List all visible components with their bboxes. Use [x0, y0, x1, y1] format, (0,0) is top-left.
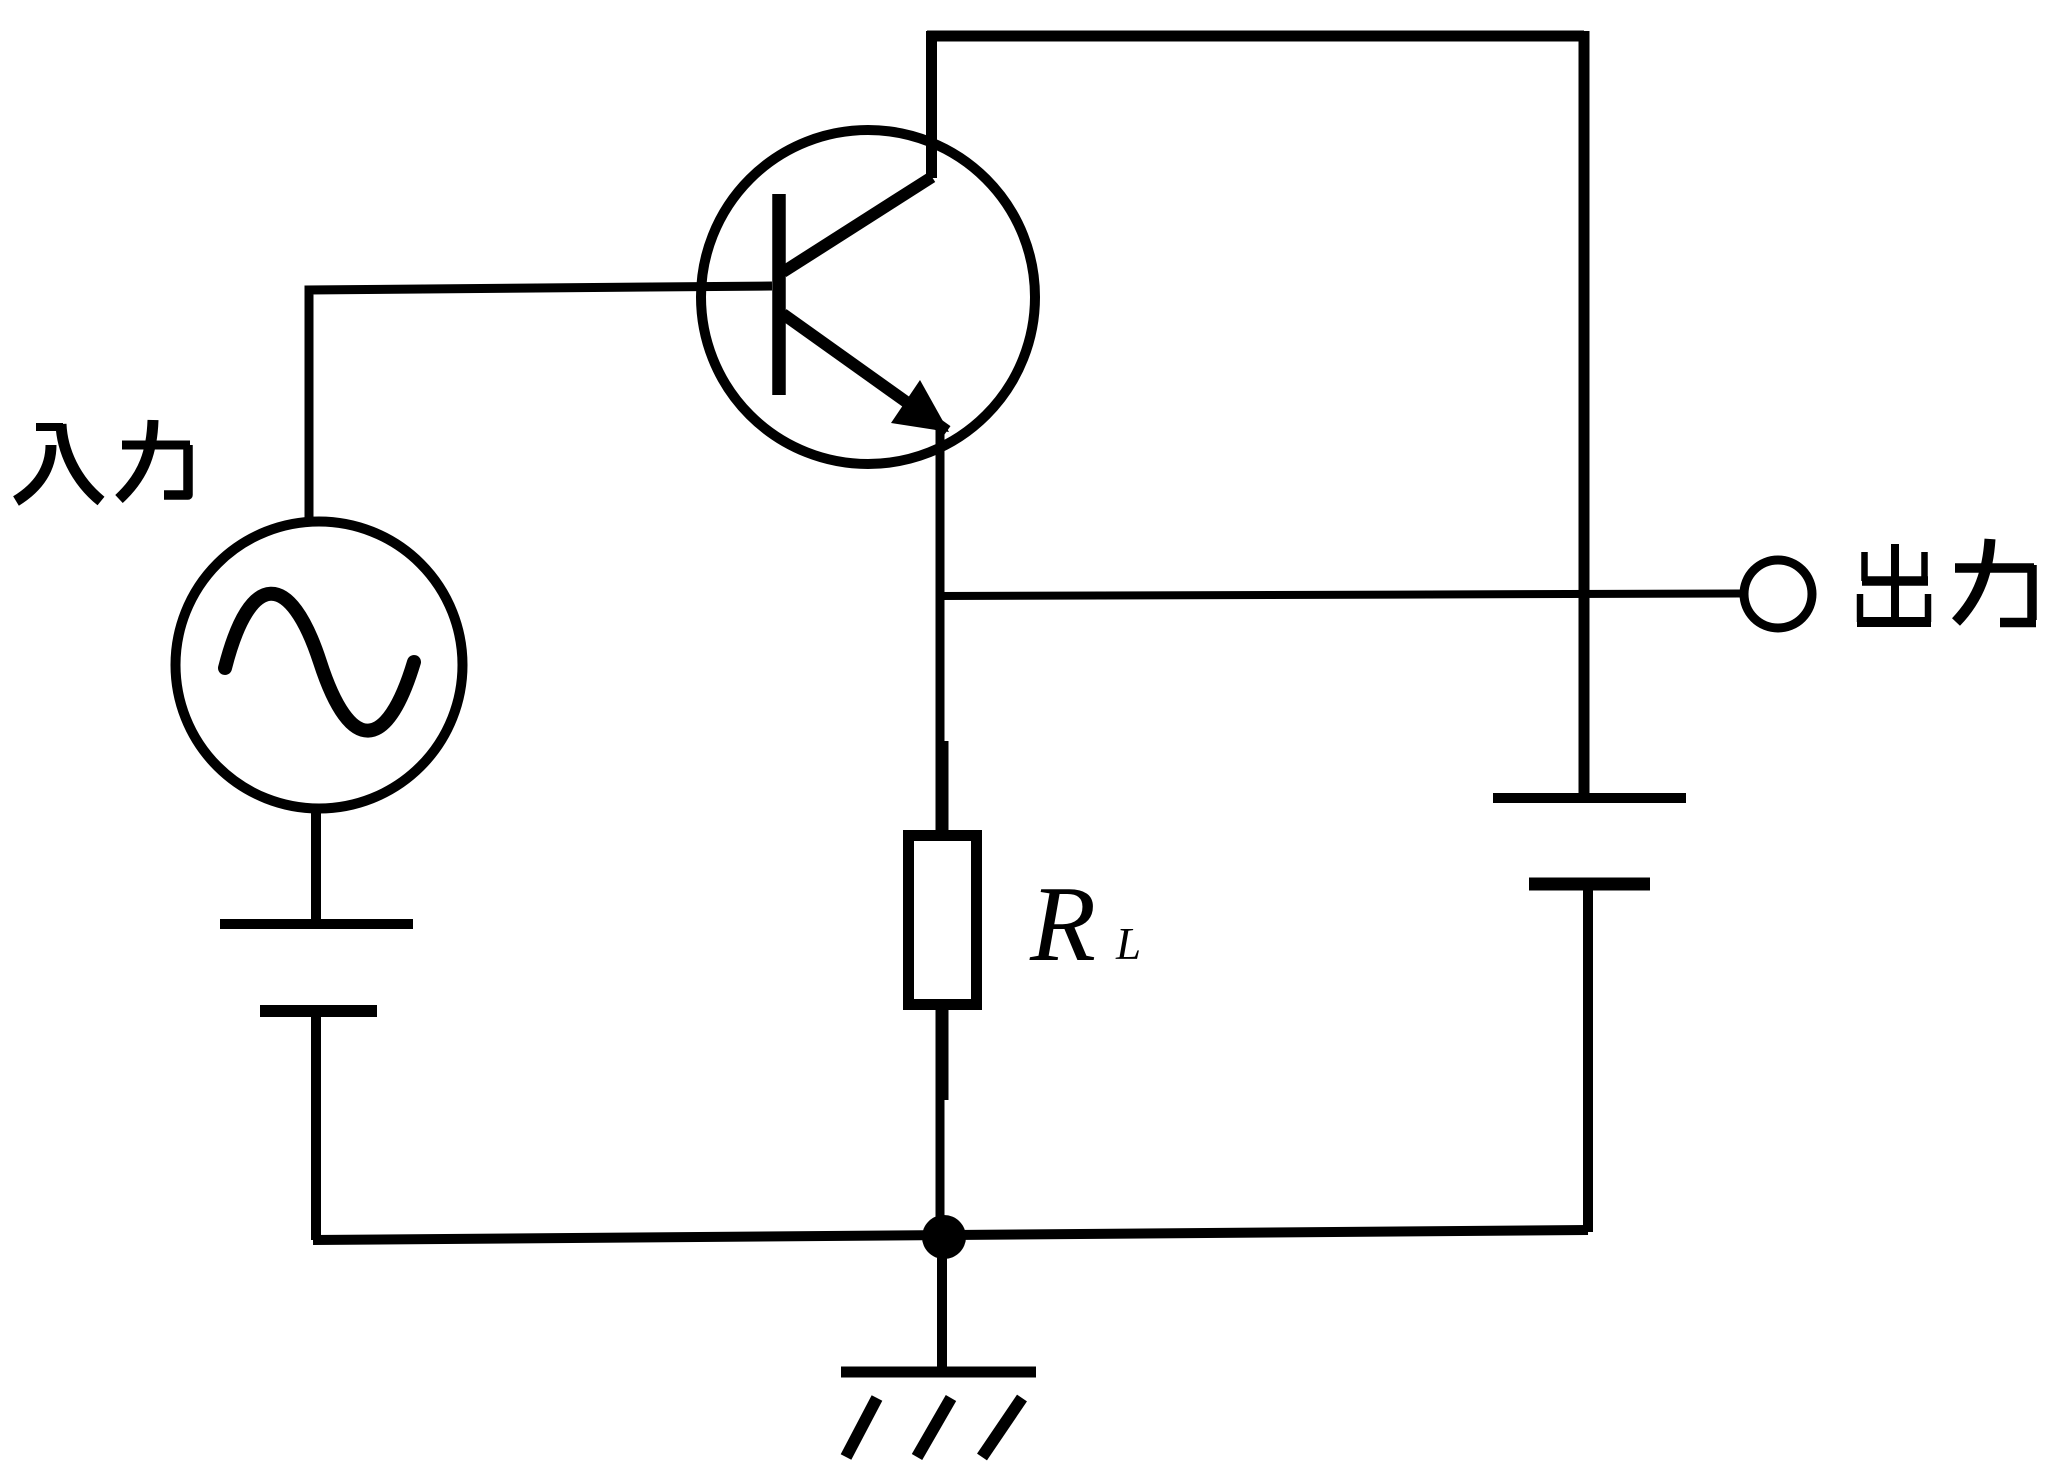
transistor Q1 (NPN, emitter follower) [701, 130, 1035, 464]
wire: battery E2 down to bottom rail [1583, 884, 1593, 1232]
wire: battery E1 down to bottom rail [311, 1011, 321, 1240]
wire: top rail from collector to right branch [927, 31, 1584, 42]
wire: resistor to junction node [936, 1096, 945, 1240]
node: junction of emitter branch, bottom rail and ground [922, 1215, 966, 1259]
wire: AC source to battery E1 [311, 806, 321, 921]
label 出力 (output) drawn as strokes [1857, 539, 2036, 623]
wire: collector lead up from transistor to top rail [926, 31, 937, 178]
battery E2 short plate [1529, 878, 1650, 891]
resistor RL [909, 741, 977, 1100]
battery E1 short plate [260, 1005, 377, 1017]
svg-text:L: L [1115, 919, 1141, 969]
wire: right vertical from top rail down to battery E2 [1579, 31, 1590, 794]
battery E2 long plate [1493, 793, 1686, 803]
wire: emitter lead down from transistor through output node to resistor [936, 425, 945, 747]
wire: output line from emitter node to output terminal [940, 594, 1741, 597]
wire: base wire from input source up-corner to transistor base [309, 286, 772, 518]
label 入力 (input) drawn as strokes [16, 420, 190, 501]
AC source V1 (signal generator) [176, 522, 463, 809]
battery E1 long plate [220, 919, 413, 929]
output terminal (open circle) [1744, 560, 1812, 628]
svg-text:R: R [1029, 865, 1096, 984]
ground [841, 1372, 1036, 1457]
wire: bottom rail [313, 1230, 1588, 1240]
wire: junction down to ground [937, 1236, 947, 1372]
label RL [1029, 865, 1141, 984]
